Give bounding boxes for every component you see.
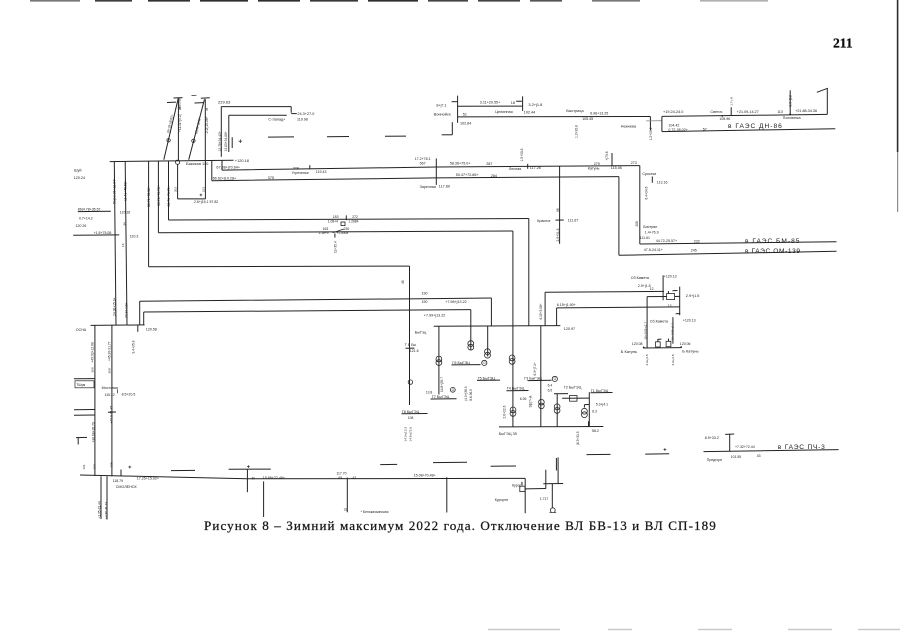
svg-text:232: 232 — [694, 239, 700, 243]
svg-text:117.26: 117.26 — [530, 166, 541, 170]
svg-text:+1.5+75.08: +1.5+75.08 — [94, 231, 112, 235]
svg-text:Предгорн: Предгорн — [707, 458, 722, 462]
svg-text:+21.09-14.27: +21.09-14.27 — [737, 110, 759, 114]
svg-text:120 26: 120 26 — [76, 224, 87, 228]
svg-text:117.89: 117.89 — [439, 184, 450, 188]
svg-text:1.2+33.9: 1.2+33.9 — [649, 127, 653, 140]
svg-text:33.74+76.72+: 33.74+76.72+ — [157, 185, 161, 206]
svg-text:6.98+13.25: 6.98+13.25 — [590, 111, 608, 115]
svg-text:6.15+3.08+: 6.15+3.08+ — [539, 303, 543, 319]
svg-text:113: 113 — [777, 110, 783, 114]
svg-text:Г7 БыГЭЦ: Г7 БыГЭЦ — [432, 395, 450, 399]
svg-text:6.4+34.6: 6.4+34.6 — [644, 186, 648, 199]
svg-text:БыГЭЦ 35: БыГЭЦ 35 — [499, 432, 517, 436]
svg-text:6.5: 6.5 — [548, 388, 553, 392]
svg-text:Шуй: Шуй — [74, 169, 82, 173]
svg-text:Угреченье: Угреченье — [292, 171, 309, 175]
svg-text:190: 190 — [422, 300, 428, 304]
svg-text:8+j7.1: 8+j7.1 — [436, 104, 446, 108]
svg-text:115.06: 115.06 — [611, 166, 622, 170]
svg-text:120.06: 120.06 — [680, 342, 691, 346]
svg-text:120.24: 120.24 — [74, 176, 86, 180]
svg-text:+45.30-31.77: +45.30-31.77 — [107, 341, 111, 361]
svg-text:М: М — [252, 476, 255, 480]
svg-text:43: 43 — [352, 476, 356, 480]
svg-text:+7.98+j13.22: +7.98+j13.22 — [445, 300, 467, 304]
svg-text:101.55: 101.55 — [731, 455, 741, 459]
svg-text:Бистрян: Бистрян — [643, 225, 657, 229]
svg-text:Быстрица: Быстрица — [566, 109, 584, 113]
svg-text:0.72-38.02+: 0.72-38.02+ — [668, 128, 687, 132]
svg-text:Г2 БыГЭЦ: Г2 БыГЭЦ — [564, 385, 582, 389]
svg-text:98: 98 — [556, 208, 560, 212]
svg-text:108: 108 — [408, 416, 414, 420]
svg-text:Г4 БыГЭЦ: Г4 БыГЭЦ — [507, 387, 525, 391]
svg-text:1.2+30.8: 1.2+30.8 — [575, 125, 579, 138]
svg-text:1.2684: 1.2684 — [348, 219, 358, 223]
svg-text:111.61: 111.61 — [640, 236, 650, 240]
svg-text:+7.32+72.44: +7.32+72.44 — [735, 445, 755, 449]
svg-text:С-Запад+: С-Запад+ — [268, 118, 286, 122]
svg-text:СМОЛЕНСК: СМОЛЕНСК — [116, 485, 138, 489]
svg-text:273: 273 — [631, 161, 637, 165]
svg-text:35: 35 — [205, 107, 209, 111]
svg-text:+38.68+30.79: +38.68+30.79 — [91, 422, 95, 443]
svg-text:279: 279 — [594, 162, 600, 166]
svg-text:18: 18 — [511, 101, 515, 105]
svg-text:+j70.6: +j70.6 — [605, 151, 609, 160]
svg-text:229.63: 229.63 — [218, 100, 231, 105]
svg-text:2.9+j1.5: 2.9+j1.5 — [645, 354, 649, 365]
svg-text:Целинная: Целинная — [495, 110, 513, 114]
svg-text:1.5+30.8: 1.5+30.8 — [520, 148, 524, 161]
svg-text:57: 57 — [703, 128, 707, 132]
svg-text:15.08+70.48+: 15.08+70.48+ — [414, 474, 436, 478]
svg-text:1.18+4: 1.18+4 — [318, 231, 328, 235]
svg-text:3.2+j1.8: 3.2+j1.8 — [528, 102, 542, 107]
svg-text:306: 306 — [90, 367, 94, 372]
svg-text:+21.88-34.36: +21.88-34.36 — [795, 109, 817, 113]
svg-text:13.8: 13.8 — [426, 390, 433, 394]
svg-text:Красног: Красног — [537, 219, 551, 223]
svg-text:104.42: 104.42 — [668, 123, 679, 127]
svg-text:308: 308 — [107, 368, 111, 373]
svg-text:ОСНА: ОСНА — [76, 328, 87, 332]
svg-text:118.79: 118.79 — [113, 479, 123, 483]
svg-text:Сростки: Сростки — [642, 172, 656, 176]
svg-text:Лесная: Лесная — [509, 167, 521, 171]
svg-text:Г6 БыГЭЦ: Г6 БыГЭЦ — [452, 361, 470, 365]
svg-text:75: 75 — [344, 508, 348, 512]
svg-text:ТШум: ТШум — [76, 383, 86, 387]
svg-text:102.44: 102.44 — [524, 110, 535, 114]
svg-text:115.12: 115.12 — [105, 393, 115, 397]
svg-text:+120.13: +120.13 — [683, 318, 696, 322]
svg-text:5.3+j4.1: 5.3+j4.1 — [596, 402, 608, 406]
svg-text:50(10.05+12.84+: 50(10.05+12.84+ — [113, 178, 117, 204]
svg-text:14.3+j13.3: 14.3+j13.3 — [404, 427, 408, 442]
svg-text:567: 567 — [420, 161, 426, 165]
svg-text:-2.2(-29.08+: -2.2(-29.08+ — [205, 116, 209, 134]
svg-text:43: 43 — [757, 454, 761, 458]
svg-text:24.3+27.0: 24.3+27.0 — [297, 112, 314, 116]
svg-text:65: 65 — [338, 476, 342, 480]
svg-text:в ГАЭС ПЧ-3: в ГАЭС ПЧ-3 — [778, 444, 826, 451]
svg-text:* Белокачьинская: * Белокачьинская — [361, 510, 389, 514]
svg-text:13.83+34.88+: 13.83+34.88+ — [224, 131, 228, 151]
svg-text:2.6+j15.1 57.82: 2.6+j15.1 57.82 — [194, 200, 218, 204]
svg-text:в ГАЭС ДН-86: в ГАЭС ДН-86 — [728, 123, 783, 130]
svg-text:2.9+31.8: 2.9+31.8 — [556, 228, 560, 241]
svg-text:1.7+.8: 1.7+.8 — [729, 97, 733, 106]
svg-text:Г1 БыГЭЦ: Г1 БыГЭЦ — [591, 389, 609, 393]
svg-text:8.5+20.5: 8.5+20.5 — [122, 392, 136, 396]
svg-text:113.16: 113.16 — [657, 180, 668, 184]
svg-text:12: 12 — [668, 304, 672, 308]
svg-text:287: 287 — [486, 162, 492, 166]
svg-text:6.3+j7.1+: 6.3+j7.1+ — [533, 362, 537, 375]
svg-text:(4.9+j38.9: (4.9+j38.9 — [464, 386, 468, 400]
svg-text:(6.5+31.5: (6.5+31.5 — [576, 431, 580, 445]
svg-text:+120.18: +120.18 — [235, 158, 249, 163]
svg-text:2.9+j1.5: 2.9+j1.5 — [638, 284, 651, 288]
svg-text:211: 211 — [833, 36, 853, 51]
svg-text:Воинойск: Воинойск — [434, 112, 451, 117]
svg-text:17.25+15.92+: 17.25+15.92+ — [137, 476, 159, 480]
svg-text:119.98: 119.98 — [297, 117, 308, 121]
svg-text:6.15+j1.90+: 6.15+j1.90+ — [557, 303, 576, 307]
svg-text:+1.5008: +1.5008 — [336, 231, 348, 235]
svg-text:12: 12 — [650, 287, 654, 291]
svg-text:2.9+j1.5: 2.9+j1.5 — [686, 294, 700, 298]
svg-text:Катунь: Катунь — [588, 167, 600, 171]
svg-text:Нежнева: Нежнева — [621, 124, 637, 128]
svg-text:Бакская 110: Бакская 110 — [186, 161, 209, 166]
svg-text:+7.99+j13.22: +7.99+j13.22 — [424, 314, 446, 318]
svg-text:119.43: 119.43 — [316, 170, 327, 174]
svg-text:105.96: 105.96 — [719, 117, 730, 121]
svg-text:38+3/05+j1.2: 38+3/05+j1.2 — [671, 323, 675, 341]
svg-text:103: 103 — [201, 187, 205, 192]
svg-text:58.2: 58.2 — [592, 429, 599, 433]
svg-text:+43.9-71.35: +43.9-71.35 — [109, 406, 113, 424]
svg-text:192: 192 — [92, 464, 96, 469]
svg-text:33.76+76.75+: 33.76+76.75+ — [167, 186, 171, 207]
svg-text:111.67: 111.67 — [568, 218, 578, 222]
svg-text:в ГАЭС ОМ-139: в ГАЭС ОМ-139 — [745, 248, 801, 255]
svg-text:208: 208 — [635, 221, 639, 227]
svg-text:+11.41+j9.2(: +11.41+j9.2( — [178, 113, 182, 132]
svg-text:Рисунок 8 – Зимний максимум 20: Рисунок 8 – Зимний максимум 2022 года. О… — [204, 518, 717, 533]
svg-text:120.08: 120.08 — [632, 342, 643, 346]
svg-text:Б Катунь: Б Катунь — [621, 349, 637, 354]
svg-text:Сб.Камета: Сб.Камета — [631, 276, 650, 280]
svg-text:295: 295 — [109, 462, 113, 467]
svg-text:34: 34 — [122, 222, 126, 226]
svg-text:12+35.4: 12+35.4 — [333, 241, 337, 253]
svg-text:16: 16 — [121, 243, 125, 247]
svg-text:Сб.Камета: Сб.Камета — [650, 319, 669, 323]
svg-text:6.3: 6.3 — [592, 409, 597, 413]
svg-text:+1.35-31.44: +1.35-31.44 — [97, 501, 101, 518]
svg-text:0.7+14.2: 0.7+14.2 — [79, 217, 93, 221]
svg-text:Г8 БыГЭЦ: Г8 БыГЭЦ — [402, 410, 420, 414]
svg-text:Г3 БыГЭЦ: Г3 БыГЭЦ — [524, 377, 542, 381]
svg-text:24.36+15.9+: 24.36+15.9+ — [112, 297, 116, 316]
svg-text:Б Катунь: Б Катунь — [682, 348, 698, 353]
svg-text:Бакская: Бакская — [178, 97, 182, 109]
svg-text:120.18: 120.18 — [120, 210, 130, 214]
svg-text:6.4: 6.4 — [548, 383, 553, 387]
svg-text:183: 183 — [333, 215, 339, 219]
svg-text:+45.02+12.68: +45.02+12.68 — [90, 342, 94, 363]
svg-text:105.45: 105.45 — [582, 117, 593, 121]
svg-text:Заречная: Заречная — [420, 185, 436, 189]
svg-text:284: 284 — [491, 174, 497, 178]
svg-text:22.84+19+: 22.84+19+ — [124, 302, 128, 318]
svg-text:11.41+75.52+: 11.41+75.52+ — [124, 180, 128, 201]
svg-text:в ГАЭС БМ-85: в ГАЭС БМ-85 — [745, 238, 800, 245]
svg-text:86.71+78.52+: 86.71+78.52+ — [147, 186, 151, 207]
svg-text:8.9+33.2: 8.9+33.2 — [705, 436, 719, 440]
svg-text:2.6+22.6: 2.6+22.6 — [502, 405, 506, 418]
svg-text:14.8+j72.6: 14.8+j72.6 — [409, 427, 413, 442]
svg-text:51: 51 — [463, 112, 467, 116]
svg-text:203: 203 — [174, 187, 178, 192]
svg-text:+19.24-24.0: +19.24-24.0 — [663, 110, 683, 114]
svg-text:Курорт: Курорт — [512, 483, 524, 487]
svg-text:245: 245 — [691, 249, 697, 253]
svg-text:66.62+j10.28+: 66.62+j10.28+ — [213, 177, 237, 181]
svg-text:2.9+j1.5: 2.9+j1.5 — [671, 354, 675, 365]
svg-text:375: 375 — [268, 176, 274, 180]
svg-text:Зф(7+j4.: Зф(7+j4. — [528, 395, 532, 408]
svg-text:1.4+76.9: 1.4+76.9 — [645, 231, 659, 235]
svg-text:8.6-36.5: 8.6-36.5 — [469, 389, 473, 401]
svg-text:58.36+75.0+: 58.36+75.0+ — [450, 161, 471, 165]
svg-text:Курортн: Курортн — [495, 498, 508, 502]
svg-text:12.78+34.42+: 12.78+34.42+ — [218, 131, 222, 151]
svg-text:48: 48 — [401, 280, 405, 284]
svg-text:44.72-25.57+: 44.72-25.57+ — [656, 239, 677, 243]
svg-text:50.47+72.86+: 50.47+72.86+ — [456, 173, 479, 177]
svg-text:3.11+20.55+: 3.11+20.55+ — [480, 100, 500, 104]
svg-text:+4.30-31.49: +4.30-31.49 — [105, 502, 109, 519]
svg-text:38+3/05+j1.7: 38+3/05+j1.7 — [643, 322, 647, 340]
svg-text:1.717: 1.717 — [540, 497, 549, 501]
svg-text:338: 338 — [293, 166, 299, 170]
svg-text:Мостовая: Мостовая — [102, 386, 118, 390]
svg-text:Половинка: Половинка — [783, 116, 801, 120]
svg-text:Светоч: Светоч — [710, 110, 722, 114]
svg-text:120.58: 120.58 — [146, 328, 157, 332]
svg-text:120.3: 120.3 — [130, 234, 139, 238]
svg-text:120.97: 120.97 — [564, 327, 575, 331]
svg-text:47.5-24.11+: 47.5-24.11+ — [644, 248, 663, 252]
svg-text:272: 272 — [352, 215, 358, 219]
svg-text:102.84: 102.84 — [460, 121, 471, 125]
svg-text:Г5 БыГЭЦ: Г5 БыГЭЦ — [478, 377, 496, 381]
svg-text:121.6: 121.6 — [410, 349, 419, 353]
svg-text:14.8+j39.7: 14.8+j39.7 — [440, 377, 444, 392]
svg-text:+120.13: +120.13 — [664, 274, 677, 278]
svg-text:Т В Бы: Т В Бы — [405, 343, 417, 347]
svg-text:0.3+j8.2: 0.3+j8.2 — [788, 95, 792, 107]
svg-text:15.89+22.46+: 15.89+22.46+ — [263, 476, 285, 480]
svg-text:9.4+35.8: 9.4+35.8 — [132, 340, 136, 353]
svg-text:121: 121 — [82, 464, 86, 469]
svg-text:1.08+4: 1.08+4 — [328, 219, 338, 223]
svg-text:67.38+j70.64+: 67.38+j70.64+ — [216, 166, 240, 170]
svg-text:86(4.78+35.57: 86(4.78+35.57 — [78, 208, 101, 212]
svg-text:190: 190 — [422, 292, 428, 296]
svg-text:БыГэц: БыГэц — [415, 330, 427, 334]
svg-text:6.26: 6.26 — [520, 397, 527, 401]
